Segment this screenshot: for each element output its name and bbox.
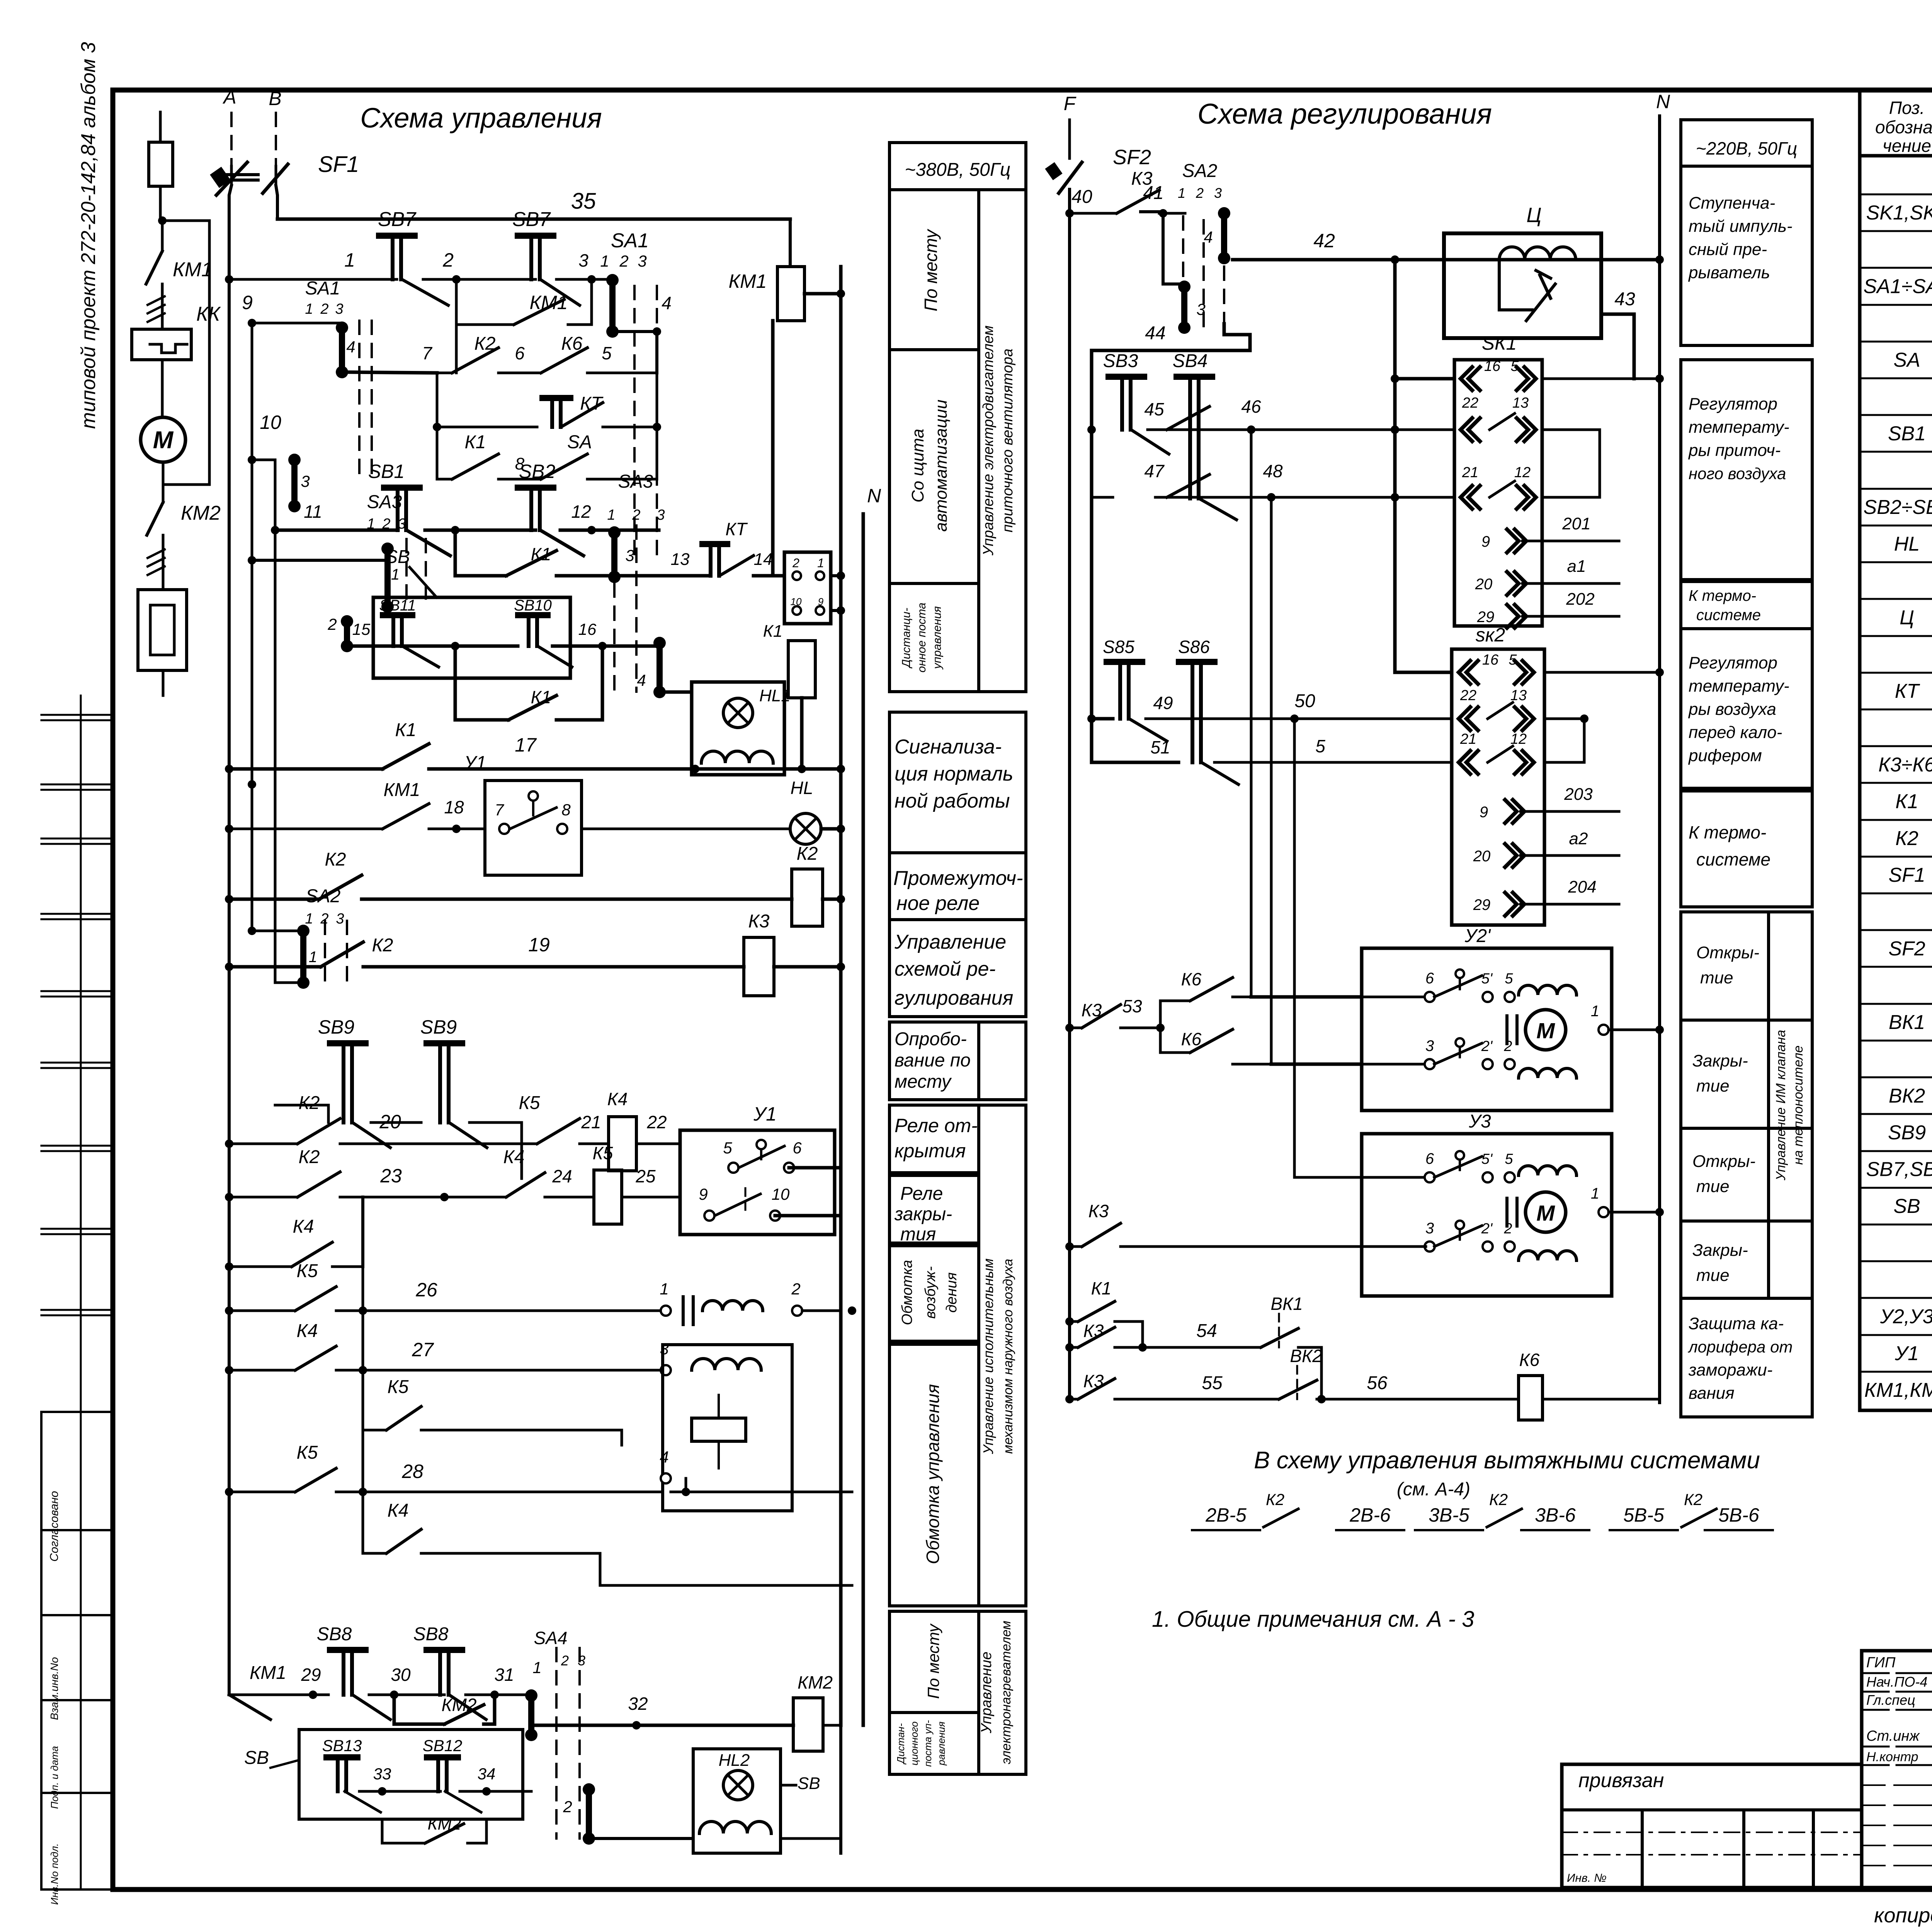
- svg-text:34: 34: [478, 1765, 496, 1783]
- svg-text:3: 3: [578, 250, 588, 270]
- svg-text:К3: К3: [1083, 1321, 1104, 1341]
- svg-text:2: 2: [320, 301, 328, 317]
- svg-text:Ст.инж: Ст.инж: [1866, 1728, 1920, 1744]
- svg-text:1: 1: [344, 249, 355, 271]
- svg-text:привязан: привязан: [1578, 1769, 1664, 1792]
- svg-text:Ступенча-: Ступенча-: [1689, 194, 1775, 213]
- svg-text:К6: К6: [1181, 1029, 1202, 1049]
- svg-text:5': 5': [1481, 1151, 1493, 1167]
- svg-text:ВК1: ВК1: [1270, 1294, 1303, 1314]
- svg-text:К5: К5: [519, 1093, 540, 1113]
- svg-text:20: 20: [1475, 576, 1493, 593]
- svg-text:температу-: температу-: [1689, 418, 1789, 437]
- svg-text:1: 1: [817, 556, 824, 570]
- svg-text:10: 10: [260, 412, 281, 433]
- svg-text:К2: К2: [372, 935, 393, 956]
- svg-text:SF2: SF2: [1113, 146, 1151, 169]
- svg-text:SB: SB: [1893, 1195, 1920, 1218]
- svg-text:Управление: Управление: [894, 931, 1006, 953]
- svg-text:Управление электродвигателем: Управление электродвигателем: [980, 325, 997, 556]
- svg-text:S86: S86: [1178, 637, 1210, 657]
- svg-text:К1: К1: [531, 544, 551, 564]
- svg-text:SB9: SB9: [1888, 1122, 1926, 1144]
- svg-text:N: N: [1656, 91, 1670, 112]
- svg-text:К4: К4: [293, 1216, 314, 1237]
- svg-text:41: 41: [1143, 183, 1163, 203]
- svg-text:управления: управления: [931, 606, 944, 670]
- svg-text:1: 1: [600, 252, 609, 270]
- svg-text:КМ2: КМ2: [181, 502, 221, 524]
- svg-text:электронагревателем: электронагревателем: [999, 1621, 1014, 1764]
- svg-text:SB9: SB9: [420, 1016, 457, 1038]
- svg-text:Со щита: Со щита: [908, 429, 927, 502]
- svg-text:SВ: SВ: [798, 1774, 820, 1793]
- svg-text:К1: К1: [531, 687, 551, 707]
- svg-text:31: 31: [494, 1665, 514, 1685]
- svg-text:2': 2': [1481, 1221, 1493, 1237]
- svg-text:53: 53: [1122, 996, 1142, 1016]
- svg-text:месту: месту: [895, 1071, 952, 1092]
- svg-text:рифером: рифером: [1688, 746, 1762, 765]
- svg-text:К2: К2: [299, 1147, 320, 1167]
- svg-text:HL: HL: [1894, 533, 1920, 555]
- svg-text:SA1: SA1: [611, 230, 649, 252]
- svg-text:49: 49: [1153, 693, 1173, 713]
- svg-text:К термо-: К термо-: [1689, 822, 1766, 842]
- svg-text:9: 9: [1480, 804, 1488, 821]
- svg-text:42: 42: [1313, 230, 1335, 252]
- svg-text:КТ: КТ: [725, 519, 748, 539]
- svg-text:По месту: По месту: [921, 228, 941, 311]
- svg-text:S85: S85: [1103, 637, 1134, 657]
- svg-text:2: 2: [632, 507, 640, 523]
- svg-text:автоматизации: автоматизации: [932, 400, 951, 532]
- svg-text:3: 3: [336, 911, 344, 927]
- svg-text:Инв.No подл.: Инв.No подл.: [49, 1843, 60, 1905]
- svg-text:SВ: SВ: [244, 1748, 269, 1768]
- svg-text:3: 3: [1425, 1220, 1434, 1237]
- svg-text:21: 21: [1460, 731, 1476, 747]
- svg-text:КМ2: КМ2: [798, 1672, 833, 1692]
- svg-text:SА2: SА2: [1182, 161, 1218, 181]
- svg-text:SA: SA: [1893, 349, 1920, 371]
- svg-text:механизмом наружного воздуха: механизмом наружного воздуха: [1001, 1259, 1015, 1454]
- svg-text:К3÷К6: К3÷К6: [1878, 753, 1932, 776]
- svg-text:3: 3: [1425, 1037, 1434, 1054]
- svg-text:схемой ре-: схемой ре-: [895, 958, 996, 980]
- svg-text:Откры-: Откры-: [1696, 943, 1759, 962]
- svg-text:равления: равления: [935, 1721, 947, 1766]
- svg-text:SB7,SB8: SB7,SB8: [1866, 1158, 1932, 1181]
- svg-text:6: 6: [793, 1139, 802, 1157]
- svg-text:а2: а2: [1569, 829, 1588, 848]
- svg-text:на теплоносителе: на теплоносителе: [1791, 1046, 1806, 1165]
- svg-text:онное поста: онное поста: [915, 603, 928, 673]
- svg-text:16: 16: [1484, 358, 1501, 374]
- svg-text:Защита ка-: Защита ка-: [1689, 1314, 1784, 1333]
- svg-text:SA1÷SA4: SA1÷SA4: [1863, 276, 1932, 298]
- svg-text:30: 30: [391, 1665, 411, 1685]
- svg-text:3: 3: [638, 252, 646, 270]
- svg-text:К2: К2: [797, 844, 818, 864]
- svg-text:7: 7: [422, 343, 432, 363]
- svg-text:ГИП: ГИП: [1866, 1655, 1896, 1671]
- svg-text:По месту: По месту: [924, 1623, 942, 1699]
- svg-text:56: 56: [1367, 1373, 1388, 1393]
- svg-text:Инв. №: Инв. №: [1567, 1872, 1607, 1884]
- svg-text:SF1: SF1: [1888, 864, 1925, 886]
- svg-text:SК1: SК1: [1482, 332, 1517, 354]
- svg-text:системе: системе: [1696, 607, 1761, 624]
- svg-text:КК: КК: [196, 303, 221, 325]
- svg-text:25: 25: [635, 1166, 656, 1186]
- svg-text:9: 9: [1481, 533, 1490, 550]
- svg-text:К4: К4: [503, 1147, 525, 1167]
- svg-text:N: N: [867, 485, 881, 507]
- svg-text:SB2: SB2: [519, 461, 556, 482]
- svg-text:Опробо-: Опробо-: [895, 1029, 967, 1049]
- svg-text:2: 2: [561, 1653, 569, 1668]
- svg-text:5В-6: 5В-6: [1718, 1504, 1759, 1526]
- svg-text:системе: системе: [1696, 849, 1770, 869]
- svg-text:К4: К4: [388, 1500, 409, 1521]
- svg-text:1: 1: [1178, 185, 1185, 201]
- svg-text:Регулятор: Регулятор: [1689, 395, 1777, 413]
- svg-text:47: 47: [1144, 461, 1165, 481]
- svg-text:28: 28: [401, 1461, 423, 1482]
- svg-text:21: 21: [581, 1112, 601, 1132]
- svg-text:SF2: SF2: [1888, 937, 1925, 960]
- svg-text:SA2: SA2: [306, 886, 341, 906]
- svg-text:2В-6: 2В-6: [1349, 1504, 1391, 1526]
- svg-text:32: 32: [628, 1694, 648, 1714]
- svg-text:Промежуточ-: Промежуточ-: [893, 867, 1023, 889]
- svg-text:20: 20: [1473, 848, 1491, 865]
- svg-text:Ц: Ц: [1900, 607, 1914, 629]
- svg-text:тие: тие: [1696, 1177, 1730, 1196]
- svg-text:обозна-: обозна-: [1875, 117, 1932, 137]
- svg-text:5: 5: [1315, 736, 1325, 756]
- svg-text:201: 201: [1562, 514, 1590, 533]
- svg-text:К1: К1: [395, 720, 417, 740]
- svg-text:~220В, 50Гц: ~220В, 50Гц: [1696, 138, 1797, 158]
- svg-text:22: 22: [1462, 395, 1478, 411]
- svg-text:22: 22: [646, 1112, 667, 1132]
- svg-text:SВ4: SВ4: [1173, 351, 1208, 371]
- svg-text:45: 45: [1144, 399, 1164, 419]
- svg-text:3: 3: [1214, 185, 1222, 201]
- svg-text:51: 51: [1150, 737, 1170, 757]
- svg-text:3: 3: [335, 301, 343, 317]
- svg-text:Схема регулирования: Схема регулирования: [1197, 98, 1492, 130]
- svg-text:приточного вентилятора: приточного вентилятора: [1000, 349, 1016, 532]
- svg-text:12: 12: [571, 502, 591, 522]
- svg-text:К термо-: К термо-: [1689, 587, 1756, 604]
- svg-text:SВ8: SВ8: [317, 1624, 352, 1645]
- svg-text:SA: SA: [567, 432, 592, 452]
- svg-text:1: 1: [309, 949, 317, 966]
- svg-text:SВ12: SВ12: [423, 1736, 463, 1755]
- svg-text:SВ13: SВ13: [322, 1736, 362, 1755]
- svg-text:29: 29: [301, 1665, 321, 1685]
- svg-text:а1: а1: [1567, 557, 1586, 576]
- svg-text:1: 1: [660, 1280, 668, 1298]
- svg-text:Обмотка: Обмотка: [899, 1260, 915, 1325]
- svg-text:М: М: [1536, 1201, 1555, 1226]
- svg-text:ционного: ционного: [908, 1721, 920, 1765]
- svg-text:Регулятор: Регулятор: [1689, 653, 1777, 672]
- svg-text:20: 20: [379, 1111, 401, 1133]
- svg-text:температу-: температу-: [1689, 677, 1789, 696]
- svg-text:К5: К5: [297, 1261, 318, 1281]
- svg-text:чение: чение: [1883, 136, 1931, 156]
- svg-text:К2: К2: [1266, 1490, 1284, 1509]
- svg-text:22: 22: [1460, 687, 1476, 704]
- svg-text:4: 4: [662, 293, 672, 313]
- svg-text:1: 1: [391, 566, 400, 583]
- svg-text:~380В, 50Гц: ~380В, 50Гц: [905, 160, 1011, 180]
- svg-text:55: 55: [1202, 1373, 1223, 1393]
- svg-text:SA4: SA4: [534, 1628, 568, 1648]
- svg-text:6: 6: [515, 343, 525, 363]
- svg-text:НL1: НL1: [759, 686, 791, 705]
- svg-text:3: 3: [1196, 300, 1205, 318]
- svg-text:К5: К5: [593, 1143, 613, 1163]
- svg-text:40: 40: [1071, 187, 1092, 207]
- svg-text:54: 54: [1196, 1321, 1217, 1341]
- svg-text:А: А: [222, 86, 236, 108]
- svg-text:КМ1: КМ1: [173, 259, 213, 281]
- svg-text:13: 13: [671, 550, 690, 569]
- svg-text:заморажи-: заморажи-: [1688, 1361, 1772, 1379]
- svg-text:27: 27: [412, 1339, 434, 1361]
- svg-text:SВ10: SВ10: [514, 597, 552, 614]
- svg-text:Дистан-: Дистан-: [895, 1723, 906, 1765]
- svg-text:ВК1: ВК1: [1889, 1011, 1925, 1034]
- svg-text:43: 43: [1614, 289, 1635, 310]
- svg-text:К3: К3: [1088, 1201, 1109, 1221]
- svg-text:2: 2: [563, 1798, 572, 1816]
- svg-text:3: 3: [301, 472, 310, 490]
- svg-text:F: F: [1064, 93, 1077, 114]
- svg-text:К2: К2: [1684, 1490, 1702, 1509]
- svg-text:SB7: SB7: [378, 208, 417, 231]
- svg-text:перед кало-: перед кало-: [1689, 723, 1782, 742]
- svg-text:5: 5: [723, 1139, 732, 1157]
- svg-text:Управление ИМ клапана: Управление ИМ клапана: [1774, 1030, 1788, 1181]
- svg-text:14: 14: [754, 550, 773, 569]
- svg-text:1: 1: [607, 507, 615, 523]
- svg-text:ной работы: ной работы: [895, 790, 1010, 812]
- svg-text:тие: тие: [1696, 1266, 1730, 1285]
- svg-text:2: 2: [792, 556, 799, 570]
- svg-text:К2: К2: [325, 849, 346, 870]
- svg-text:У2': У2': [1464, 926, 1491, 946]
- svg-text:типовой проект 272-20-142,84 а: типовой проект 272-20-142,84 альбом 3: [77, 42, 100, 429]
- svg-text:4: 4: [346, 338, 355, 356]
- svg-text:SK1,SK2: SK1,SK2: [1866, 202, 1932, 224]
- svg-text:поста уп-: поста уп-: [922, 1720, 934, 1767]
- svg-text:К1: К1: [763, 622, 782, 641]
- svg-text:Поз.: Поз.: [1889, 98, 1925, 118]
- svg-text:15: 15: [352, 620, 371, 638]
- svg-text:У1: У1: [753, 1103, 777, 1125]
- svg-text:1: 1: [1591, 1003, 1599, 1020]
- svg-text:У1: У1: [464, 753, 486, 773]
- svg-text:К6: К6: [1519, 1350, 1540, 1370]
- svg-text:К3: К3: [1083, 1371, 1104, 1391]
- svg-text:Схема управления: Схема управления: [360, 103, 602, 134]
- svg-text:КТ: КТ: [1895, 680, 1920, 702]
- svg-text:12: 12: [1514, 464, 1531, 481]
- svg-text:К1: К1: [1091, 1278, 1112, 1298]
- svg-text:2: 2: [442, 249, 454, 271]
- svg-text:5В-5: 5В-5: [1623, 1504, 1664, 1526]
- svg-text:У3: У3: [1468, 1111, 1491, 1132]
- svg-text:SA1: SA1: [305, 278, 340, 299]
- svg-text:9: 9: [242, 292, 253, 313]
- svg-text:тия: тия: [900, 1224, 936, 1245]
- svg-text:SB1: SB1: [368, 461, 405, 482]
- svg-text:Взам.инв.No: Взам.инв.No: [48, 1657, 60, 1720]
- svg-text:5: 5: [1510, 358, 1519, 374]
- svg-text:202: 202: [1566, 590, 1594, 609]
- svg-text:НL: НL: [791, 778, 813, 798]
- svg-text:5: 5: [1505, 1151, 1513, 1167]
- svg-text:26: 26: [415, 1279, 437, 1301]
- svg-text:(см. А-4): (см. А-4): [1397, 1479, 1470, 1500]
- svg-text:КМ1: КМ1: [729, 270, 767, 292]
- svg-text:24: 24: [552, 1166, 572, 1186]
- svg-text:5: 5: [1509, 652, 1517, 668]
- svg-text:К1: К1: [1895, 791, 1918, 813]
- svg-text:К2: К2: [1895, 827, 1918, 850]
- svg-text:29: 29: [1473, 896, 1491, 913]
- svg-text:9: 9: [818, 596, 823, 607]
- svg-text:5: 5: [602, 343, 612, 363]
- svg-text:ВК2: ВК2: [1290, 1346, 1322, 1366]
- svg-text:Н.контр: Н.контр: [1866, 1750, 1918, 1764]
- svg-text:2В-5: 2В-5: [1205, 1504, 1247, 1526]
- svg-text:КМ1,КМ2: КМ1,КМ2: [1864, 1379, 1932, 1401]
- svg-text:35: 35: [571, 189, 596, 214]
- svg-text:1: 1: [1591, 1185, 1599, 1202]
- svg-text:ное реле: ное реле: [896, 892, 980, 915]
- svg-text:К6: К6: [561, 333, 583, 354]
- svg-text:копировал: копировал: [1874, 1904, 1932, 1927]
- svg-text:тый импуль-: тый импуль-: [1689, 217, 1793, 236]
- svg-text:КТ: КТ: [580, 393, 604, 414]
- svg-text:1: 1: [532, 1658, 541, 1677]
- svg-text:10: 10: [772, 1185, 790, 1203]
- svg-text:Закры-: Закры-: [1692, 1241, 1748, 1260]
- svg-text:М: М: [153, 427, 174, 454]
- svg-text:3В-5: 3В-5: [1429, 1504, 1469, 1526]
- svg-text:8: 8: [561, 801, 571, 819]
- svg-text:К5: К5: [388, 1377, 409, 1397]
- svg-text:SВ11: SВ11: [379, 597, 416, 614]
- svg-text:возбуж-: возбуж-: [922, 1266, 939, 1319]
- svg-text:К3: К3: [748, 911, 770, 932]
- svg-text:1. Общие примечания см. А -: 1. Общие примечания см. А - 3: [1152, 1607, 1474, 1632]
- svg-text:тие: тие: [1700, 968, 1733, 987]
- svg-text:КМ2: КМ2: [427, 1815, 461, 1833]
- svg-text:SВ: SВ: [385, 547, 410, 567]
- svg-text:2: 2: [1196, 185, 1204, 201]
- svg-text:КМ1: КМ1: [384, 780, 420, 800]
- svg-text:вания: вания: [1689, 1384, 1735, 1403]
- svg-text:гулирования: гулирования: [895, 987, 1013, 1009]
- svg-text:В: В: [269, 88, 281, 109]
- svg-text:крытия: крытия: [895, 1140, 966, 1162]
- svg-text:SB1: SB1: [1888, 422, 1926, 445]
- svg-text:Дистанци-: Дистанци-: [900, 608, 913, 668]
- svg-text:Ц: Ц: [1526, 204, 1541, 227]
- svg-text:Управление: Управление: [978, 1651, 995, 1733]
- svg-text:К3: К3: [1082, 1000, 1102, 1020]
- svg-text:5': 5': [1481, 971, 1493, 987]
- svg-text:ры воздуха: ры воздуха: [1688, 700, 1776, 719]
- svg-text:Сигнализа-: Сигнализа-: [895, 736, 1002, 758]
- svg-text:SВ8: SВ8: [413, 1624, 449, 1645]
- svg-text:Реле: Реле: [900, 1184, 943, 1204]
- svg-text:48: 48: [1263, 461, 1283, 481]
- svg-text:3: 3: [625, 546, 634, 565]
- svg-text:тие: тие: [1696, 1077, 1730, 1095]
- svg-text:50: 50: [1294, 691, 1315, 711]
- svg-text:SF1: SF1: [318, 152, 359, 177]
- svg-text:К2: К2: [1489, 1490, 1508, 1509]
- svg-text:203: 203: [1564, 785, 1593, 804]
- svg-text:11: 11: [304, 502, 322, 522]
- svg-text:Закры-: Закры-: [1692, 1051, 1748, 1070]
- svg-text:Откры-: Откры-: [1692, 1152, 1755, 1171]
- svg-text:6: 6: [1425, 1150, 1434, 1167]
- svg-text:ция нормаль: ция нормаль: [895, 763, 1013, 785]
- svg-text:33: 33: [373, 1765, 391, 1783]
- svg-text:лорифера от: лорифера от: [1687, 1338, 1793, 1356]
- svg-text:закры-: закры-: [894, 1204, 952, 1225]
- svg-text:Нач.ПО-4: Нач.ПО-4: [1866, 1674, 1927, 1690]
- svg-text:9: 9: [699, 1185, 707, 1203]
- svg-text:К2: К2: [474, 333, 496, 354]
- svg-text:К4: К4: [607, 1089, 628, 1109]
- svg-text:3: 3: [656, 507, 665, 523]
- svg-text:19: 19: [528, 934, 550, 956]
- svg-text:SB2÷SB6: SB2÷SB6: [1863, 496, 1932, 519]
- svg-text:1: 1: [305, 301, 313, 317]
- svg-text:4: 4: [1204, 228, 1213, 246]
- svg-text:16: 16: [1482, 652, 1499, 668]
- svg-text:4: 4: [660, 1448, 668, 1466]
- svg-text:7: 7: [495, 801, 504, 819]
- svg-text:К5: К5: [297, 1442, 318, 1463]
- svg-text:М: М: [1536, 1019, 1555, 1043]
- svg-text:3В-6: 3В-6: [1535, 1504, 1576, 1526]
- svg-text:К6: К6: [1181, 969, 1202, 989]
- svg-text:13: 13: [1512, 395, 1529, 411]
- svg-text:Согласовано: Согласовано: [48, 1491, 61, 1562]
- svg-text:SB9: SB9: [318, 1016, 355, 1038]
- svg-text:2': 2': [1481, 1038, 1493, 1054]
- svg-text:Гл.спец: Гл.спец: [1866, 1692, 1915, 1708]
- svg-text:18: 18: [444, 797, 464, 817]
- svg-text:10: 10: [791, 596, 802, 607]
- svg-text:29: 29: [1477, 609, 1495, 626]
- svg-text:НL2: НL2: [719, 1751, 750, 1770]
- svg-text:SВ3: SВ3: [1103, 351, 1138, 371]
- svg-text:КМ2: КМ2: [441, 1695, 476, 1715]
